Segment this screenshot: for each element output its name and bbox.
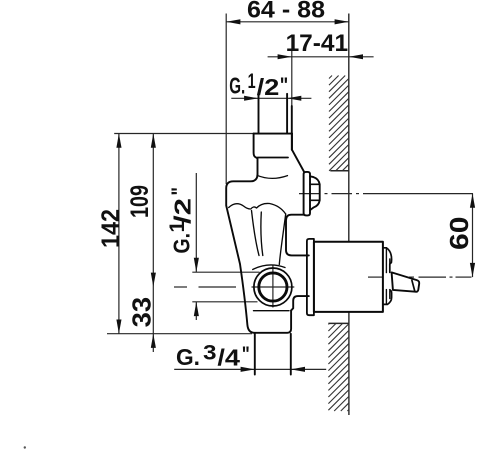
svg-text:1: 1 <box>248 70 256 93</box>
svg-text:109: 109 <box>126 185 154 218</box>
svg-text:G.: G. <box>229 73 245 99</box>
svg-text:": " <box>242 343 250 366</box>
svg-text:142: 142 <box>97 209 125 248</box>
svg-text:3: 3 <box>203 341 217 364</box>
svg-text:/4: /4 <box>217 344 240 370</box>
svg-text:G.: G. <box>176 344 200 370</box>
svg-text:33: 33 <box>126 297 156 328</box>
svg-text:/2: /2 <box>257 74 280 100</box>
svg-text:": " <box>280 74 289 97</box>
svg-text:60: 60 <box>444 217 474 251</box>
svg-text:64 - 88: 64 - 88 <box>247 0 325 24</box>
svg-text:17-41: 17-41 <box>286 30 349 57</box>
